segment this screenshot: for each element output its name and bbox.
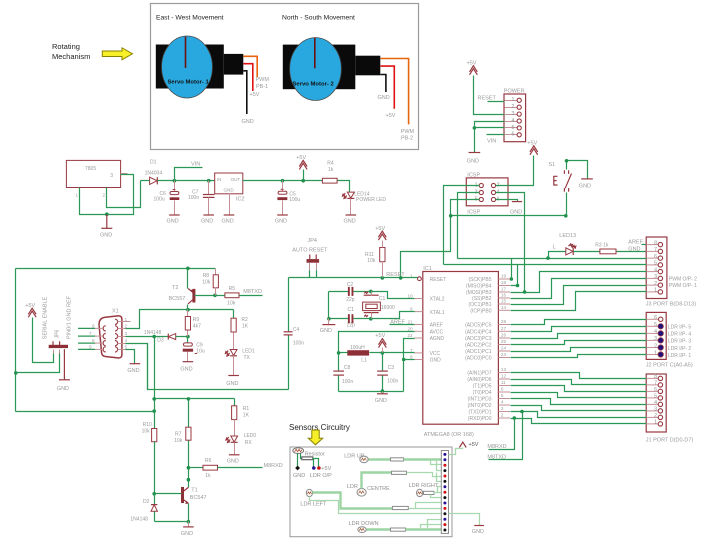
svg-text:L1: L1 [361, 357, 367, 363]
svg-text:(AIN0)PD6: (AIN0)PD6 [467, 377, 491, 383]
svg-text:AGND: AGND [430, 336, 445, 342]
+5V supply arrow on rail [301, 179, 305, 183]
S1 bottom wire to reset bus [566, 193, 568, 216]
svg-text:LDR O/P: LDR O/P [310, 473, 332, 479]
svg-text:BC547: BC547 [190, 495, 207, 501]
capacitor C4 100n (auto-reset) [288, 278, 290, 332]
svg-text:R3 1k: R3 1k [595, 243, 609, 249]
bottom rail + ground [339, 391, 404, 393]
RESET net label at POWER pin1 [488, 101, 505, 103]
svg-text:ICSP: ICSP [467, 210, 480, 216]
svg-text:GND: GND [320, 328, 332, 334]
svg-text:6: 6 [654, 315, 657, 321]
svg-text:LED1: LED1 [242, 348, 255, 354]
svg-text:(MISO)PB4: (MISO)PB4 [466, 284, 492, 290]
svg-text:(SCK)PB5: (SCK)PB5 [468, 277, 491, 283]
svg-text:2: 2 [512, 104, 515, 110]
servo motor 2 disc [290, 38, 342, 101]
svg-text:CENTRE: CENTRE [367, 486, 390, 492]
svg-text:(INT0)PD2: (INT0)PD2 [468, 403, 492, 409]
svg-text:4: 4 [512, 118, 515, 124]
IC1 right pin names [465, 277, 492, 422]
svg-text:M8TXD: M8TXD [243, 289, 262, 295]
+5V rail after regulator [243, 180, 323, 182]
svg-text:+5V: +5V [469, 442, 479, 448]
svg-text:2: 2 [654, 413, 657, 419]
svg-text:C8: C8 [344, 365, 351, 371]
J3 pin stubs and circles [646, 245, 658, 292]
wire PB2 to PWM O/P-2 [511, 279, 647, 299]
svg-text:1: 1 [654, 350, 657, 356]
svg-text:1K: 1K [243, 413, 250, 419]
svg-text:IC1: IC1 [423, 266, 432, 272]
ground under T1 [188, 522, 190, 527]
junction at C6 [173, 179, 177, 183]
svg-text:GND: GND [222, 218, 234, 224]
servo mechanism box frame [151, 4, 419, 150]
junction at 154.2,336.6 [152, 335, 156, 339]
svg-text:LDR: LDR [347, 484, 358, 490]
+5V top rail [16, 268, 216, 270]
servo motor 1 shaft block [224, 54, 244, 75]
svg-text:7: 7 [654, 381, 657, 387]
svg-text:10k: 10k [142, 428, 151, 434]
svg-text:PWM O/P- 1: PWM O/P- 1 [669, 283, 697, 289]
svg-text:LDR LEFT: LDR LEFT [300, 501, 327, 507]
RESET bus to S1 [451, 215, 566, 217]
svg-text:PIN0/1 GND REF: PIN0/1 GND REF [67, 295, 73, 339]
junction at 370.8,318.8 [369, 317, 373, 321]
svg-text:(ADC3)PC3: (ADC3)PC3 [465, 336, 492, 342]
svg-text:GND: GND [579, 183, 591, 189]
svg-text:RESET: RESET [386, 272, 405, 278]
wire PB3 MOSI net [511, 272, 647, 293]
svg-text:1k: 1k [205, 473, 211, 479]
header J1 box [646, 374, 666, 432]
svg-text:100n: 100n [342, 379, 353, 385]
svg-text:+5V: +5V [250, 92, 260, 98]
IC1 left pin stubs [414, 299, 423, 360]
svg-text:10: 10 [407, 294, 413, 299]
wire PD2 to J1 pin3 [511, 406, 647, 411]
J2 pin6 open [659, 317, 663, 321]
svg-text:GND: GND [100, 233, 112, 239]
svg-text:12: 12 [501, 374, 507, 379]
svg-text:16: 16 [501, 293, 507, 298]
RESET wire to IC1 pin1 [289, 277, 418, 279]
svg-text:22: 22 [407, 333, 413, 338]
POWER pin4+pin5 to GND [475, 122, 505, 128]
svg-text:BC557: BC557 [169, 296, 186, 302]
junction at 208.7,180.7 [207, 179, 211, 183]
junction at 188.4,479.7 [187, 478, 191, 482]
svg-text:AVCC: AVCC [430, 330, 444, 336]
VIN net label [175, 168, 203, 181]
svg-text:100n: 100n [387, 379, 398, 385]
ICSP pin6 wire to GND [496, 200, 518, 202]
LDR UP branch wires [431, 460, 442, 465]
svg-text:5: 5 [654, 322, 657, 328]
X1 pin numbers [125, 317, 128, 350]
svg-text:T1: T1 [191, 487, 197, 493]
left border wire [15, 269, 17, 412]
svg-text:(RXD)PD0: (RXD)PD0 [468, 416, 492, 422]
svg-text:North - South Movement: North - South Movement [282, 15, 355, 22]
svg-text:1: 1 [512, 97, 515, 103]
svg-text:Rotating: Rotating [52, 42, 80, 51]
svg-text:PWM O/P- 2: PWM O/P- 2 [669, 276, 697, 282]
svg-text:8: 8 [654, 240, 657, 246]
svg-text:5: 5 [512, 125, 515, 131]
svg-text:11: 11 [501, 380, 506, 385]
svg-text:J2 PORT C(A0-A5): J2 PORT C(A0-A5) [646, 363, 693, 369]
svg-text:ICSP: ICSP [467, 172, 480, 178]
legend LDR O/P dot [312, 466, 316, 470]
svg-text:3: 3 [512, 111, 515, 117]
svg-text:100n: 100n [293, 341, 304, 347]
ICSP pin3 wire (SCK) [458, 193, 480, 259]
servo1 PWM wire (orange) [243, 56, 257, 77]
svg-text:+5V: +5V [321, 466, 331, 472]
svg-text:2: 2 [654, 281, 657, 287]
svg-text:C1: C1 [379, 296, 386, 302]
servo1 +5V wire (red) [243, 64, 253, 91]
regulator IC2 box [215, 173, 243, 194]
svg-text:GND: GND [224, 187, 235, 192]
AVCC wire [339, 332, 415, 353]
wire PC3 to J2 pin4 [511, 334, 647, 339]
svg-text:10u: 10u [196, 348, 205, 354]
junction at 338.6,352.9 [337, 351, 341, 355]
main VIN rail [158, 180, 215, 182]
svg-text:10k: 10k [367, 258, 376, 264]
svg-text:GND: GND [467, 159, 479, 165]
wire PC5 to J2 pin6 [511, 320, 647, 325]
J2 pins 5..1 with LDR inputs (filled) [658, 324, 663, 329]
wire XTAL2 net (top) [329, 291, 349, 293]
svg-text:LDR DOWN: LDR DOWN [349, 521, 379, 527]
svg-text:GND: GND [127, 368, 139, 374]
wire PD0 to J1 pin1 [511, 419, 647, 424]
svg-text:18: 18 [501, 280, 507, 285]
svg-text:C4: C4 [293, 327, 300, 333]
svg-text:TX: TX [244, 355, 251, 361]
svg-text:+5V: +5V [296, 155, 306, 161]
svg-text:J3 PORT B(D8-D13): J3 PORT B(D8-D13) [646, 302, 696, 308]
svg-text:22p: 22p [347, 322, 356, 328]
junction at 400.7,277.9 [399, 276, 403, 280]
svg-text:6: 6 [92, 323, 95, 328]
svg-text:GND: GND [430, 358, 442, 364]
junction at 154.2,411.1 [152, 409, 156, 413]
strip pin dots [443, 453, 446, 532]
header ICSP box [466, 178, 508, 206]
header POWER box [504, 94, 526, 142]
RX pull line [155, 398, 235, 400]
svg-text:6: 6 [654, 387, 657, 393]
servo motor 1 pointer [185, 37, 187, 68]
legend +5V dot [317, 466, 321, 470]
svg-text:R1: R1 [243, 406, 250, 412]
ICSP pin circles [479, 183, 483, 187]
svg-text:1: 1 [654, 288, 657, 294]
svg-text:R6: R6 [205, 458, 212, 464]
X1 pin5 wire to GND [118, 349, 126, 351]
7805 pin1+pin3 wire loop [80, 175, 134, 215]
svg-text:GND: GND [375, 398, 387, 404]
servo2 +5V wire (red) [380, 66, 394, 109]
X1 pin3 wire to D3 [118, 336, 126, 338]
svg-text:R8: R8 [203, 273, 210, 279]
wire PB1 to PWM O/P-1 [511, 286, 647, 305]
T1 base wire [155, 493, 182, 495]
switch S1 actuator bracket [554, 176, 558, 185]
svg-text:GND: GND [275, 218, 287, 224]
IC1 right pin stubs [498, 279, 510, 418]
header J2 box [646, 312, 666, 359]
svg-text:L: L [553, 244, 556, 250]
VCC wire [383, 352, 415, 354]
ICSP pin2 wire to +5V [496, 156, 534, 186]
serial-enable vertical wire [154, 337, 156, 429]
wire PB0 to J3 pin1 [511, 292, 647, 311]
svg-text:9: 9 [410, 307, 413, 312]
svg-text:3: 3 [501, 406, 504, 411]
ICSP pin1 wire (MISO) [444, 186, 480, 265]
wire R3 to J3 pin7 [617, 251, 647, 253]
svg-text:(TXD)PD1: (TXD)PD1 [468, 410, 491, 416]
svg-text:IN: IN [217, 177, 222, 182]
svg-text:1N4004: 1N4004 [145, 171, 163, 177]
svg-text:IC2: IC2 [236, 197, 245, 203]
svg-text:D1: D1 [150, 160, 157, 166]
AGND wire loop [404, 339, 415, 360]
junction at 188.4,467.7 [187, 466, 191, 470]
svg-text:6: 6 [501, 387, 504, 392]
svg-text:PWM: PWM [256, 77, 270, 83]
svg-text:R2: R2 [241, 317, 248, 323]
wire PD4 to J1 pin5 [511, 393, 647, 398]
svg-text:AREF: AREF [628, 239, 643, 245]
svg-text:2: 2 [654, 343, 657, 349]
legend GND dot [295, 466, 300, 471]
junction at 511.3,279 [510, 277, 514, 281]
svg-text:RESET: RESET [478, 96, 497, 102]
svg-text:(ADC2)PC2: (ADC2)PC2 [465, 343, 492, 349]
IC1 left pin numbers [407, 274, 413, 360]
svg-text:4: 4 [654, 400, 657, 406]
wire PC1 to J2 pin2 [511, 348, 647, 352]
svg-text:16000: 16000 [381, 305, 395, 311]
junction at 548,258.1 [546, 256, 550, 260]
servo motor 2 shaft block [355, 56, 380, 76]
svg-text:7: 7 [654, 247, 657, 253]
VIN net label at POWER pin6 [487, 134, 505, 136]
legend wires [297, 454, 299, 467]
svg-text:R9: R9 [193, 317, 200, 323]
junction at 15.8,372.9 [14, 371, 18, 375]
svg-text:2: 2 [125, 323, 128, 328]
svg-text:8: 8 [410, 355, 413, 360]
svg-text:LED0: LED0 [244, 433, 257, 439]
svg-text:M8TXD: M8TXD [487, 454, 506, 460]
junction at 215,295.3 [213, 294, 217, 298]
LED13 diode [566, 248, 573, 255]
X1 left pin contacts [103, 326, 106, 352]
svg-text:3: 3 [654, 407, 657, 413]
svg-text:C1: C1 [348, 307, 355, 313]
LDR UP wire + series resistor [369, 458, 391, 460]
svg-text:4: 4 [125, 338, 128, 343]
svg-text:1K: 1K [242, 324, 249, 330]
svg-text:PB-1: PB-1 [256, 84, 268, 90]
ICSP pin5 wire (RESET) [401, 200, 480, 278]
svg-text:LDR I/P- 2: LDR I/P- 2 [668, 346, 692, 352]
X1 right pin contacts [115, 319, 118, 352]
DTR rail to C4 [147, 344, 149, 390]
svg-text:GND: GND [167, 218, 179, 224]
JP6 ground pin [63, 349, 65, 379]
LDR LEFT wire + resistor [313, 493, 393, 509]
svg-text:Servo Motor- 2: Servo Motor- 2 [293, 82, 335, 88]
svg-text:LDR I/P- 3: LDR I/P- 3 [668, 339, 692, 345]
wire LED13 to R3 [574, 251, 600, 253]
svg-text:4: 4 [654, 329, 657, 335]
svg-text:(T0)PD4: (T0)PD4 [473, 390, 492, 396]
svg-text:GND: GND [378, 95, 390, 101]
svg-text:R11: R11 [365, 252, 374, 258]
servo motor 1 body [156, 45, 224, 89]
svg-text:R4: R4 [327, 161, 334, 167]
svg-text:LDR I/P- 1: LDR I/P- 1 [668, 353, 692, 359]
svg-text:19: 19 [501, 274, 507, 279]
junction at 524.6,292 [523, 290, 527, 294]
GND from strip [449, 514, 480, 526]
svg-text:GND: GND [226, 381, 238, 387]
svg-text:GND: GND [510, 210, 522, 216]
svg-text:RX: RX [245, 440, 253, 446]
yellow arrow right [102, 48, 132, 60]
svg-text:R5: R5 [229, 286, 236, 292]
svg-text:28: 28 [501, 319, 507, 324]
svg-text:Servo Motor- 1: Servo Motor- 1 [168, 80, 210, 86]
svg-text:T2: T2 [172, 285, 178, 291]
junction at 154.2,493.8 [152, 492, 156, 496]
IC1 right pin numbers [501, 274, 507, 418]
svg-text:GND: GND [181, 531, 193, 537]
junction at 565.8,215.8 [564, 214, 568, 218]
svg-text:5: 5 [654, 394, 657, 400]
svg-text:26: 26 [501, 333, 507, 338]
svg-text:OUT: OUT [231, 177, 241, 182]
svg-text:14: 14 [501, 305, 507, 310]
svg-text:LED13: LED13 [559, 233, 576, 239]
switch S1 contacts [563, 170, 565, 174]
svg-text:SERIAL ENABLE: SERIAL ENABLE [43, 296, 49, 339]
bottom border wire [16, 411, 155, 413]
svg-text:6: 6 [512, 132, 515, 138]
svg-text:100n: 100n [188, 195, 199, 201]
svg-text:24: 24 [501, 346, 507, 351]
LDR DOWN wire + resistor [367, 528, 391, 530]
junction at 517.5,285.5 [516, 284, 520, 288]
servo1 GND wire (black) [243, 71, 247, 114]
svg-text:X1: X1 [112, 309, 119, 315]
servo motor 2 body [283, 45, 356, 90]
junction at 187.9,268.3 [186, 267, 190, 271]
svg-text:6: 6 [654, 254, 657, 260]
svg-text:(ADC5)PC5: (ADC5)PC5 [465, 323, 492, 329]
svg-text:C3: C3 [388, 365, 395, 371]
svg-text:GND: GND [344, 218, 356, 224]
svg-text:1: 1 [654, 420, 657, 426]
wire PC4 to J2 pin5 [511, 327, 647, 332]
svg-text:9: 9 [89, 344, 92, 349]
svg-text:4: 4 [654, 268, 657, 274]
svg-text:7: 7 [89, 331, 92, 336]
wire PB5 SCK net [511, 279, 512, 281]
sensors box frame [290, 447, 452, 537]
svg-text:(INT1)PD3: (INT1)PD3 [468, 397, 492, 403]
svg-text:3: 3 [125, 331, 128, 336]
junction at 154.2,398.9 [152, 397, 156, 401]
IC1 left pin names [430, 277, 447, 364]
svg-text:10k: 10k [174, 438, 183, 444]
svg-text:21: 21 [407, 320, 413, 325]
svg-text:20: 20 [407, 326, 413, 331]
svg-text:VIN: VIN [191, 162, 200, 168]
svg-text:PWM: PWM [401, 129, 415, 135]
svg-text:8: 8 [654, 374, 657, 380]
svg-text:D3: D3 [157, 338, 164, 344]
ground under 7805 [106, 214, 108, 228]
svg-text:5: 5 [501, 393, 504, 398]
svg-text:East - West Movement: East - West Movement [156, 15, 224, 22]
svg-text:(ICP)PB0: (ICP)PB0 [470, 309, 491, 315]
LED13 wire from node L [549, 252, 566, 259]
svg-text:1N4148: 1N4148 [130, 517, 148, 523]
svg-text:PB-2: PB-2 [401, 136, 413, 142]
svg-text:GND: GND [180, 367, 192, 373]
+5V wire to JP6 [33, 318, 54, 363]
servo motor 1 disc [162, 36, 213, 98]
wire PC2 to J2 pin3 [511, 341, 647, 345]
svg-text:4: 4 [501, 400, 504, 405]
svg-text:M8RXD: M8RXD [487, 444, 506, 450]
svg-text:13: 13 [501, 367, 507, 372]
wire PD3 to J1 pin4 [511, 399, 647, 405]
junction at 566.5,160.8 [565, 159, 569, 163]
junction at 474.4,127.9 [473, 126, 477, 130]
svg-text:RESET: RESET [430, 277, 447, 283]
svg-text:+5V: +5V [467, 61, 477, 67]
svg-text:VIN: VIN [487, 138, 496, 144]
legend LDR symbol [293, 448, 304, 454]
svg-text:GND: GND [293, 473, 305, 479]
7805 pin stubs [79, 188, 81, 197]
svg-text:(OC1)PB1: (OC1)PB1 [468, 302, 491, 308]
junction at 403.7,359.5 [402, 358, 406, 362]
svg-text:+5V: +5V [375, 333, 385, 339]
svg-text:+5V: +5V [375, 226, 385, 232]
svg-text:(ADC0)PC0: (ADC0)PC0 [465, 356, 492, 362]
svg-text:JP6: JP6 [55, 329, 61, 338]
junction at C5 [281, 179, 285, 183]
IC1 box [423, 272, 499, 425]
header J3 box [646, 237, 667, 299]
POWER pins 1-6 [505, 100, 518, 102]
svg-text:3: 3 [654, 274, 657, 280]
